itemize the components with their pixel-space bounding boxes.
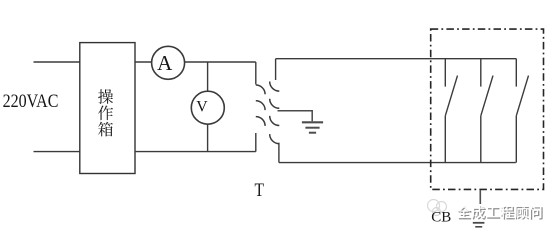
wire ammeter to transformer — [185, 61, 256, 63]
svg-text:A: A — [157, 51, 173, 75]
watermark logo circles — [428, 200, 447, 216]
wire L2 bottom-left — [34, 151, 80, 153]
wire L1 top-left — [34, 61, 80, 63]
wire voltmeter top lead — [207, 62, 209, 91]
svg-text:V: V — [196, 98, 208, 115]
switch Q1 bottom lead — [444, 116, 446, 163]
transformer T secondary bottom lead — [278, 143, 280, 163]
wire box to ammeter — [135, 61, 152, 63]
svg-text:T: T — [255, 180, 265, 201]
switch Q2 blade — [481, 76, 493, 116]
box label char 操 — [98, 89, 113, 104]
switch Q3 bottom lead — [515, 116, 517, 163]
switch Q1 blade — [445, 76, 457, 116]
wire secondary bottom to switches — [279, 162, 516, 164]
ammeter PA circle — [152, 46, 185, 79]
transformer T secondary winding arcs — [270, 82, 280, 144]
wire secondary top to switches — [276, 58, 517, 60]
transformer T secondary top lead — [275, 59, 277, 80]
watermark tick line — [479, 190, 481, 204]
operation box (操作箱) — [80, 43, 135, 174]
transformer T primary bottom lead — [255, 133, 257, 152]
svg-text:220VAC: 220VAC — [3, 91, 59, 112]
ground symbol — [302, 122, 323, 132]
dashed enclosure box — [431, 29, 544, 189]
switch Q3 top lead — [515, 59, 517, 87]
switch Q2 bottom lead — [480, 116, 482, 163]
transformer T primary winding arcs — [256, 85, 265, 126]
wire voltmeter bottom lead — [207, 124, 209, 151]
voltmeter PV circle — [191, 91, 224, 124]
transformer T primary top lead — [255, 62, 257, 84]
switch Q1 top lead — [444, 59, 446, 87]
watermark equals marks — [473, 222, 485, 224]
wire bottom middle — [135, 151, 256, 153]
svg-text:CB: CB — [431, 210, 451, 226]
watermark text 全成工程顾问 — [457, 205, 543, 220]
switch Q3 blade — [516, 76, 528, 116]
box label char 箱 — [98, 122, 113, 137]
switch Q2 top lead — [480, 59, 482, 87]
box label char 作 — [98, 106, 113, 121]
wire center tap — [278, 111, 313, 122]
